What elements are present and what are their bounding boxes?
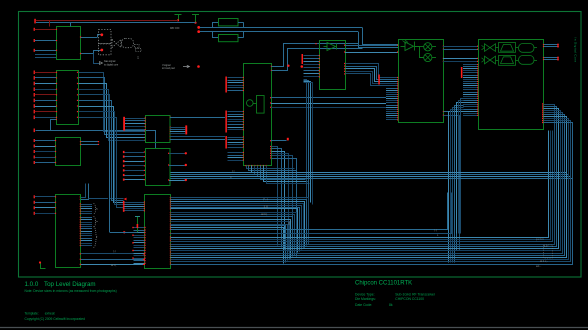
- wire VDD rail dark red: [34, 19, 178, 24]
- node arrow left: [124, 198, 127, 201]
- power tap VDD1: [175, 14, 182, 21]
- U7 left lower pins: [144, 253, 145, 265]
- bus long pair to comb riser: [170, 193, 452, 235]
- wire U1 to balun RF-: [80, 51, 102, 55]
- svg-text:Sub-1GHz RF Transceiver: Sub-1GHz RF Transceiver: [395, 292, 436, 296]
- svg-text:ant: ant: [137, 56, 140, 59]
- U6 right pin wires: [168, 152, 187, 181]
- dim note corner B: [288, 221, 291, 225]
- bus cross band: [171, 173, 573, 241]
- U8 left pin bus A with bus rip: [225, 77, 244, 93]
- U11 output pair 1: [543, 44, 559, 48]
- wire U2 elbow feed: [80, 130, 110, 233]
- resistor R1: [219, 19, 239, 26]
- IC U2: [57, 71, 79, 125]
- svg-text:exheat: exheat: [45, 312, 55, 316]
- svg-text:Date Code:: Date Code:: [355, 303, 372, 307]
- wire fan U8 lower right: [270, 146, 297, 257]
- wire GND rail blue: [36, 22, 196, 24]
- U1 left pin 2 wire: [34, 39, 58, 42]
- IC U7: [145, 195, 171, 269]
- svg-text:Note: Device sizes in microns: Note: Device sizes in microns (as measur…: [25, 289, 117, 293]
- U7 left pin bus B stubs: [132, 227, 145, 264]
- U11 left comb feed risers: [449, 99, 464, 263]
- U8 top right pins to U10: [271, 43, 363, 71]
- title die markings: [355, 297, 424, 301]
- svg-text:8k: 8k: [389, 303, 393, 307]
- node RF I/O label: [170, 26, 180, 30]
- U4 right stub group 3: [80, 226, 98, 248]
- svg-text:anti.(: anti.(: [261, 212, 267, 216]
- U6 left pin bus with bus rip: [123, 151, 145, 181]
- U2 right pin bus to core: [77, 72, 146, 208]
- wire resistor branch left: [212, 22, 219, 37]
- note device sizes: [25, 289, 117, 293]
- dim note fan A: [230, 169, 235, 179]
- U11 left comb with bus rip: [461, 64, 478, 116]
- U3 left pin bus: [34, 139, 57, 164]
- IC U3: [56, 138, 81, 166]
- U10 right lower wires: [443, 111, 460, 251]
- U11 bottom right pins: [542, 103, 543, 123]
- wire U1 top feed: [50, 20, 71, 26]
- dim note right corner: [536, 237, 553, 263]
- svg-text:()": ()": [288, 221, 291, 225]
- U10 left comb feed bus: [344, 63, 387, 86]
- svg-text:p x l m: p x l m: [536, 237, 544, 241]
- U1 left pin 3 wire: [34, 49, 58, 52]
- U5 right pin wires: [170, 117, 225, 140]
- balun ghost outline lower pad: [99, 44, 112, 55]
- page frame border: [19, 12, 582, 278]
- title device type: [355, 292, 436, 296]
- title date code: [355, 303, 393, 307]
- wire RF+ run: [200, 27, 398, 44]
- wire riser bundle mid: [304, 80, 313, 205]
- IC U11: [479, 40, 544, 130]
- IC U8: [244, 64, 272, 166]
- U11 output pair 2: [543, 57, 559, 61]
- svg-text:Top Level Diagram: Top Level Diagram: [44, 281, 96, 288]
- wire resistor branch right: [238, 22, 244, 37]
- svg-text:ant...: ant...: [536, 265, 542, 268]
- dim note near U8 bottom: [261, 197, 268, 216]
- svg-text:(..): (..): [434, 228, 437, 232]
- U8 left pin bus C with bus rip: [225, 136, 244, 149]
- dim note top right: [536, 265, 542, 268]
- U9 left pin bus with bus rip: [287, 54, 320, 77]
- U10 left comb with bus rip: [378, 75, 398, 121]
- IC U4: [56, 195, 81, 268]
- node RF+ junction: [197, 26, 200, 29]
- ground stub bottom left: [39, 261, 46, 268]
- U3 right pin stubs: [80, 141, 99, 145]
- U2 left pin bus: [34, 71, 58, 120]
- power tap VDD2: [192, 14, 199, 24]
- balun ghost outline upper pad: [99, 30, 112, 44]
- title sheet number and name: [25, 281, 96, 288]
- U8 left pin bus D: [228, 152, 245, 161]
- balun ghost coil: [122, 39, 134, 48]
- template footer: [25, 312, 55, 316]
- U5 left pin bus with bus rip: [123, 117, 146, 131]
- svg-text:In Digital Core: In Digital Core: [574, 38, 578, 63]
- svg-text:to digital core: to digital core: [104, 63, 119, 66]
- svg-text:(-): (-): [113, 249, 116, 253]
- power tap mid: [110, 217, 140, 234]
- svg-text:1.0: 1.0: [264, 205, 269, 209]
- U9 to U10 wires: [344, 45, 398, 53]
- U4 to U7 wires: [80, 253, 144, 265]
- wire long net under U2: [34, 119, 156, 149]
- svg-text:to bond pad: to bond pad: [162, 67, 175, 70]
- svg-text:| |: | |: [232, 169, 235, 173]
- dim note U4 wires: [111, 249, 116, 267]
- balun ghost pad small: [135, 45, 142, 60]
- svg-text:Chipcon CC1101RTK: Chipcon CC1101RTK: [355, 281, 412, 287]
- resistor R2: [219, 35, 239, 42]
- bus U7 bands to drop corners: [170, 197, 309, 264]
- U1 left pin 1 wire: [34, 28, 58, 31]
- svg-text:(", ): (", ): [263, 197, 268, 201]
- wire U1 to balun RF+: [80, 35, 102, 38]
- IC U5: [146, 116, 171, 143]
- IC U1: [57, 27, 81, 60]
- U4 right stub group 1: [80, 203, 97, 214]
- svg-text:Template:: Template:: [25, 312, 39, 316]
- dim note riser bottoms: [434, 228, 439, 237]
- U10 to U11 wires: [443, 46, 478, 62]
- wire RF- run: [200, 32, 398, 48]
- svg-text:at 1 x,-: at 1 x,-: [540, 259, 548, 263]
- svg-text:Copyright (C) 2009 Cellswift I: Copyright (C) 2009 Cellswift Incorporate…: [25, 317, 86, 321]
- bus bottom band to U11: [170, 105, 573, 265]
- IC U6: [146, 149, 171, 186]
- U4 left pin bus: [34, 195, 57, 215]
- net label In Digital Core: [574, 38, 578, 63]
- U4 right stub group 2: [80, 217, 97, 228]
- svg-text:RF I/O: RF I/O: [170, 26, 180, 30]
- svg-text:CHIPCON CC1100: CHIPCON CC1100: [395, 297, 424, 301]
- balun ghost bowtie: [112, 40, 121, 48]
- annotation to RF pad: [162, 64, 200, 70]
- IC U9: [320, 41, 346, 90]
- title part number: [355, 281, 412, 287]
- wire U1 to digital core arrow: [94, 54, 119, 67]
- copyright footer: [25, 317, 86, 321]
- wire fan U8 bottom bus: [245, 165, 309, 184]
- node RF- junction: [197, 30, 200, 33]
- svg-text:at f.(: at f.(: [111, 263, 116, 267]
- U8 right single wire: [270, 138, 289, 142]
- U8 left pin bus B with bus rip: [225, 111, 244, 133]
- svg-text:Die Markings:: Die Markings:: [355, 297, 376, 301]
- window bottom edge: [0, 327, 588, 329]
- U1 lower pin pair wires: [35, 55, 56, 58]
- svg-text:1.0.0: 1.0.0: [25, 281, 39, 288]
- svg-text:Device Type:: Device Type:: [355, 292, 375, 296]
- IC U10: [399, 40, 444, 123]
- U7 left pin bus A with bus rip: [123, 201, 145, 212]
- svg-text:1.2: 1.2: [544, 244, 548, 248]
- bus U7 band D: [170, 131, 553, 242]
- U8 right pins to U10 comb: [270, 97, 386, 108]
